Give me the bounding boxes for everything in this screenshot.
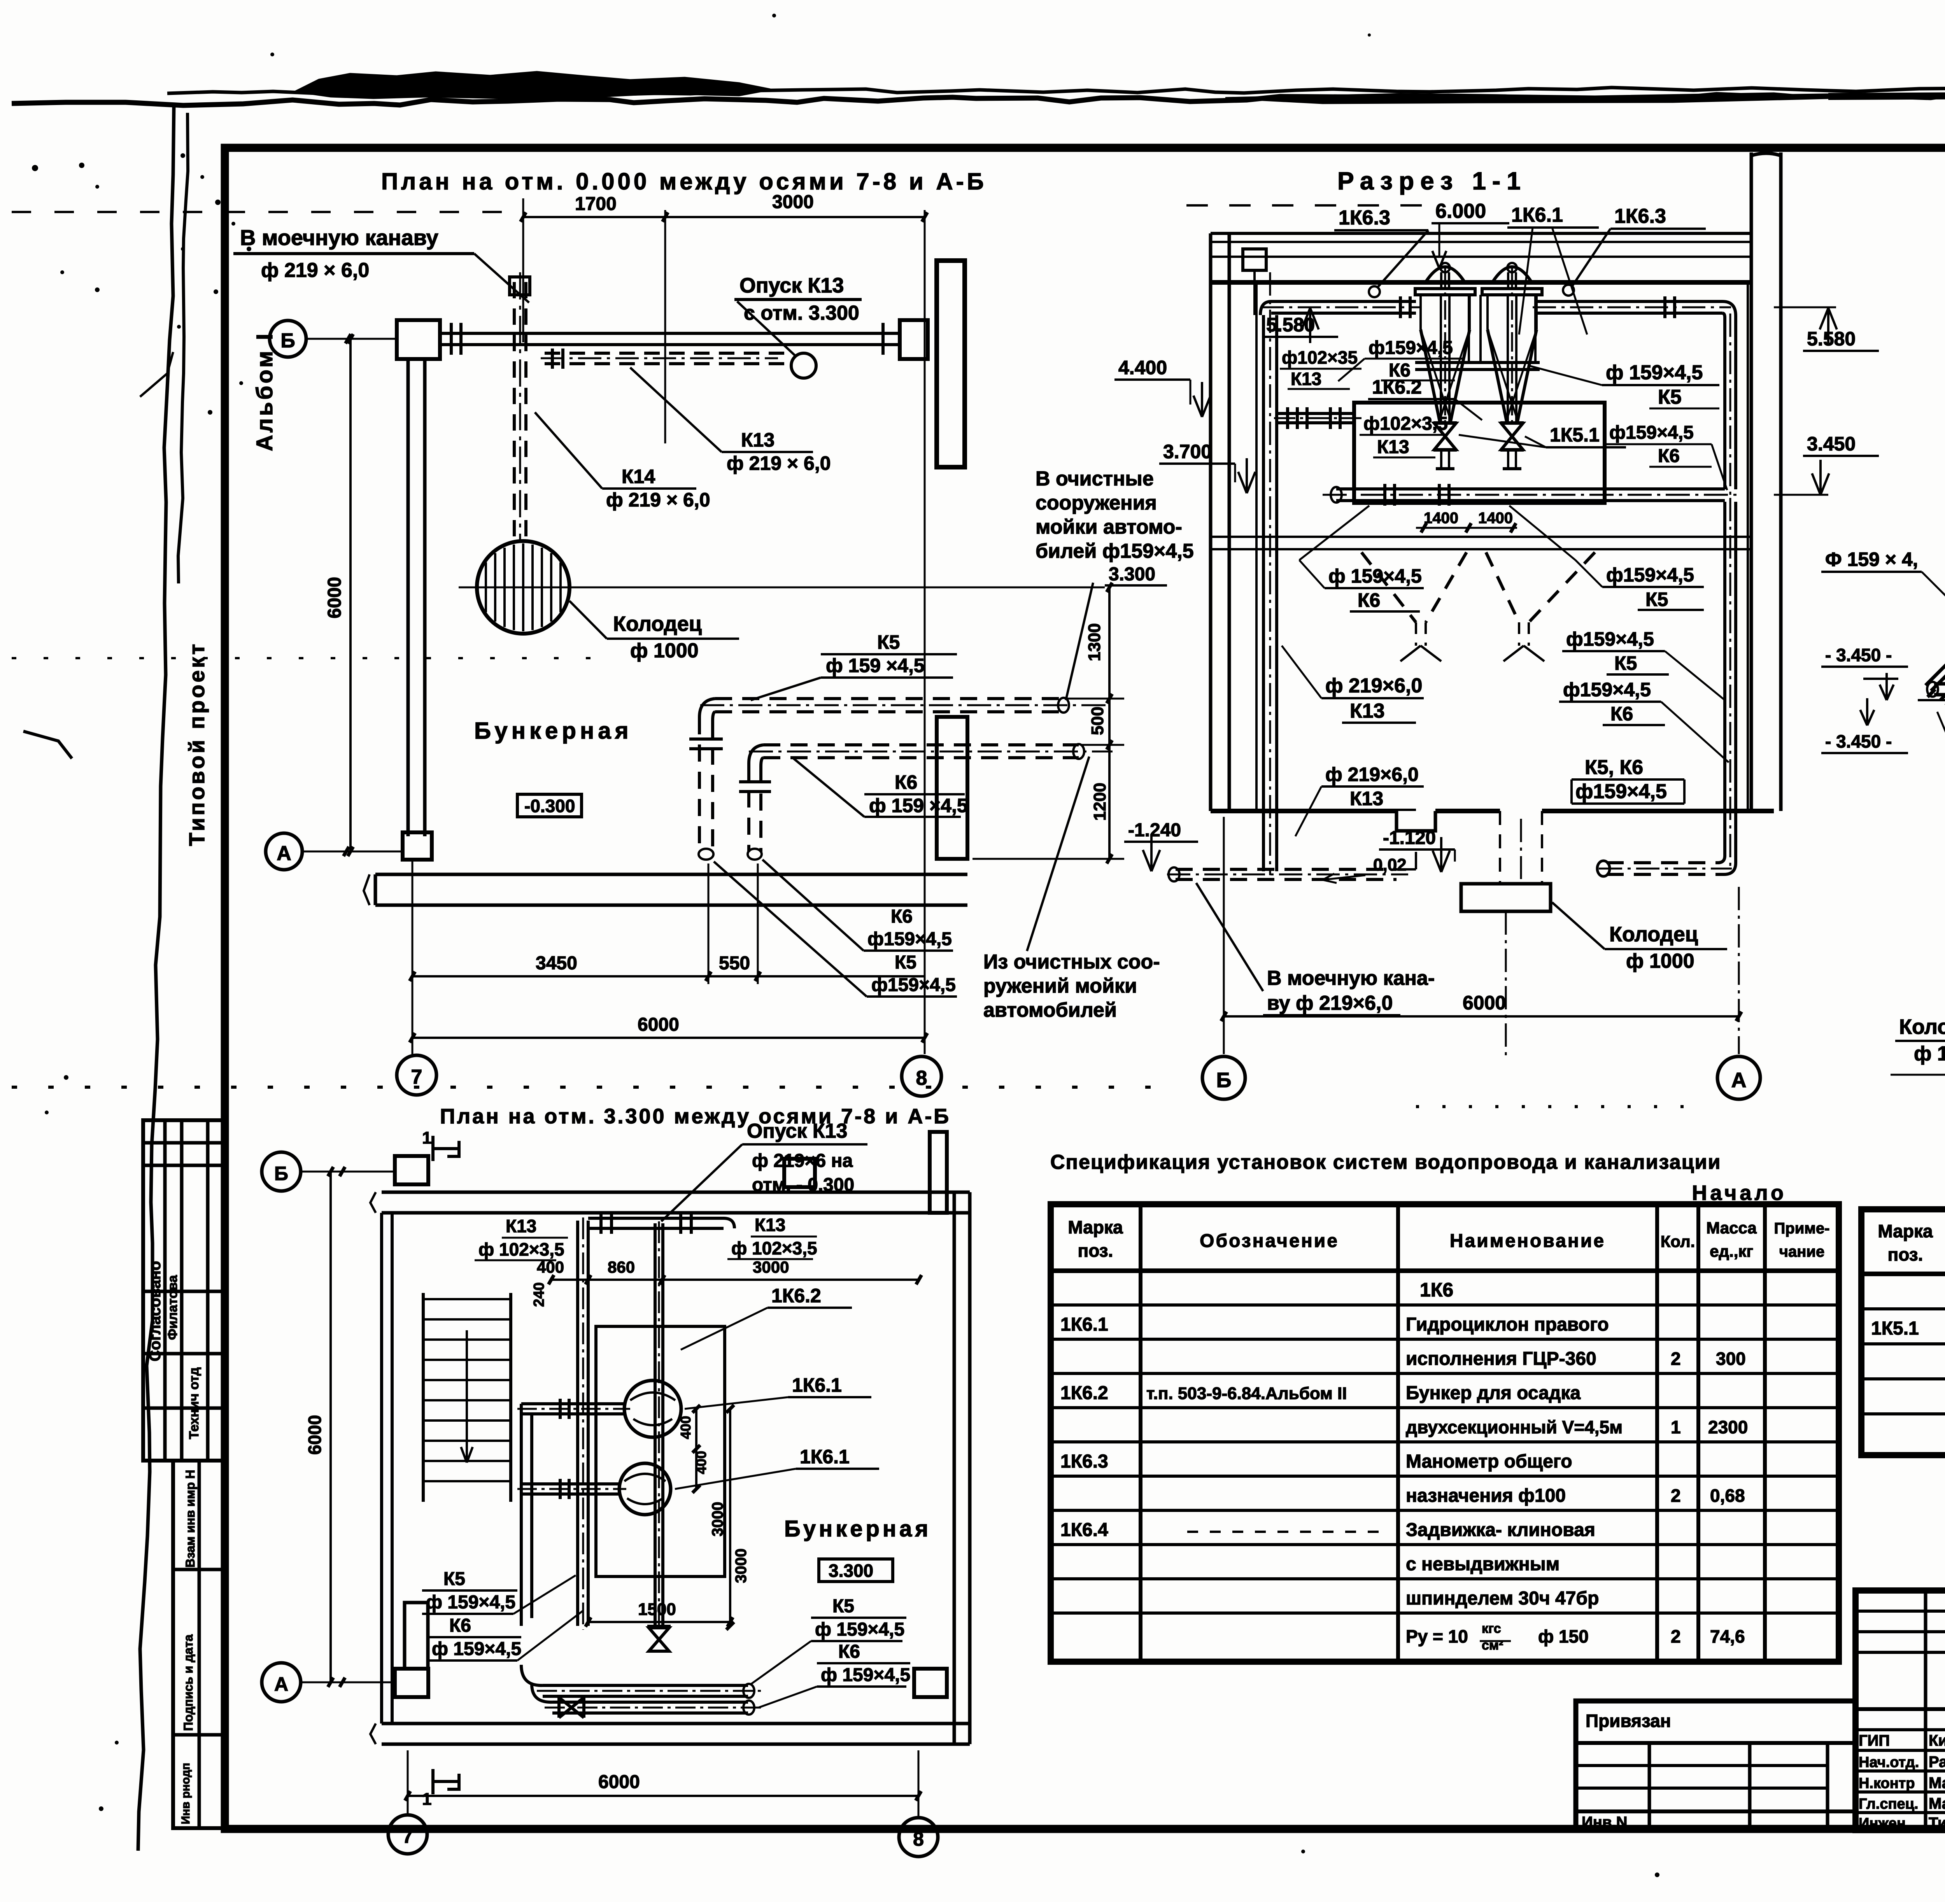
svg-text:3.300: 3.300 — [829, 1561, 873, 1581]
svg-text:К6: К6 — [891, 906, 913, 927]
svg-text:К13: К13 — [1350, 700, 1385, 722]
svg-text:1500: 1500 — [638, 1600, 676, 1619]
main diagonal pipes K6 K5 — [1918, 456, 1945, 706]
svg-text:Ф 159 × 4,: Ф 159 × 4, — [1825, 548, 1918, 570]
scan speckles top-left corner — [79, 163, 84, 168]
svg-text:ф 219×6,0: ф 219×6,0 — [1325, 674, 1422, 697]
section right wall tall — [1748, 152, 1781, 811]
dims 400 400 vertical plan33 — [678, 1405, 709, 1493]
svg-text:Б: Б — [274, 1163, 288, 1184]
svg-text:К13: К13 — [506, 1216, 536, 1236]
bottom wall plan33 — [370, 1724, 970, 1744]
svg-text:ф 150: ф 150 — [1538, 1626, 1589, 1647]
label K14 f219 — [535, 412, 710, 511]
svg-text:ф159×4,5: ф159×4,5 — [1575, 780, 1667, 803]
specification table 2 grid — [1861, 1209, 1945, 1455]
wall below left column — [408, 359, 425, 836]
svg-text:поз.: поз. — [1888, 1244, 1923, 1265]
svg-text:К5: К5 — [1658, 386, 1682, 408]
svg-text:1К5.1: 1К5.1 — [1550, 424, 1600, 446]
svg-text:ф 159×4,5: ф 159×4,5 — [815, 1619, 904, 1640]
table 1 header texts — [1068, 1217, 1829, 1261]
svg-text:Ру = 10: Ру = 10 — [1406, 1626, 1468, 1647]
svg-text:В моечную кана-: В моечную кана- — [1267, 967, 1435, 990]
svg-text:6000: 6000 — [638, 1014, 679, 1035]
svg-text:ф 219 × 6,0: ф 219 × 6,0 — [727, 452, 831, 474]
pipe on axis B — [440, 323, 900, 355]
svg-text:К5: К5 — [1645, 589, 1668, 610]
table 2 header texts — [1878, 1221, 1945, 1265]
svg-text:К13: К13 — [1377, 437, 1409, 457]
dots row under section — [1416, 1105, 1688, 1108]
svg-text:исполнения ГЦР-360: исполнения ГЦР-360 — [1406, 1349, 1596, 1369]
svg-text:ф159×4,5: ф159×4,5 — [1563, 679, 1651, 701]
drawing frame border — [225, 148, 1945, 1829]
svg-text:Колодец: Колодец — [1899, 1015, 1945, 1039]
text iz ochistnyh plan0 — [983, 951, 1160, 1021]
left margin diagonal scratch — [23, 731, 72, 758]
svg-text:К5: К5 — [1614, 652, 1637, 674]
label v moechnuyu kanavu — [233, 225, 529, 303]
svg-text:В очистные: В очистные — [1036, 468, 1154, 490]
axis circle B plan33 — [262, 1152, 395, 1191]
svg-text:ф 159 ×4,5: ф 159 ×4,5 — [869, 795, 968, 816]
svg-text:- 3.450 -: - 3.450 - — [1825, 731, 1892, 751]
dimension line 1700 3000 — [520, 192, 927, 1054]
label kolodets f1000 plan — [569, 601, 739, 662]
right vertical pipe drop K5K6 — [1597, 498, 1736, 876]
svg-text:Колодец: Колодец — [1609, 923, 1698, 946]
vertical dim 1300 500 1200 — [972, 583, 1124, 864]
svg-text:К5: К5 — [443, 1569, 465, 1589]
svg-text:ву ф 219×6,0: ву ф 219×6,0 — [1267, 992, 1393, 1014]
title block outer — [1856, 1590, 1945, 1830]
axis circle A section — [1717, 1056, 1760, 1099]
svg-text:1К6.3: 1К6.3 — [1614, 205, 1666, 228]
left bottom stamp table upper block — [143, 1120, 226, 1461]
svg-text:ф 219×6 на: ф 219×6 на — [752, 1151, 853, 1171]
axis A column foot — [403, 832, 432, 860]
svg-text:6000: 6000 — [1463, 992, 1506, 1014]
svg-text:Опуск К13: Опуск К13 — [747, 1120, 847, 1142]
svg-text:2: 2 — [1671, 1626, 1681, 1647]
svg-text:К6: К6 — [895, 771, 917, 793]
K13 pipe stack left — [1243, 249, 1277, 875]
label f159 K6 upper — [1338, 338, 1463, 381]
svg-text:с невыдвижным: с невыдвижным — [1406, 1554, 1560, 1575]
svg-text:ф 219 × 6,0: ф 219 × 6,0 — [606, 489, 710, 511]
svg-text:К5: К5 — [895, 952, 916, 973]
svg-text:300: 300 — [1716, 1349, 1746, 1369]
level -1.240 mark — [1124, 820, 1198, 871]
left pier stub plan33 — [405, 1603, 428, 1669]
column A right wall plan33 — [914, 1669, 947, 1697]
level 5.580 left — [1262, 308, 1338, 343]
svg-text:1К6.1: 1К6.1 — [1511, 204, 1563, 226]
svg-text:ГИП: ГИП — [1859, 1732, 1890, 1749]
svg-text:Марионков: Марионков — [1929, 1774, 1945, 1792]
label K13 f102 right plan33 — [727, 1215, 817, 1259]
label K13 f102 left plan33 — [475, 1216, 568, 1260]
valve on riser plan33 — [647, 1626, 671, 1651]
pipe K6 plan dashed — [739, 744, 1113, 860]
stamp staff names — [1859, 1732, 1945, 1832]
section mark 1 bottom — [422, 1769, 459, 1809]
label 1K6.3 right with leader — [1563, 205, 1706, 296]
label f159 K5 low — [1509, 506, 1704, 610]
svg-text:ф 219×6,0: ф 219×6,0 — [1325, 764, 1419, 785]
label f159 K6 right — [1605, 422, 1727, 490]
svg-text:Опуск К13: Опуск К13 — [739, 274, 844, 297]
svg-text:К13: К13 — [755, 1215, 785, 1235]
svg-text:3000: 3000 — [753, 1258, 789, 1276]
dim 3000 vertical plan33 — [709, 1405, 750, 1630]
bunker outline plan33 — [596, 1326, 725, 1576]
svg-text:поз.: поз. — [1078, 1240, 1113, 1261]
bottom wall plan0 — [364, 874, 967, 905]
svg-text:ф 159×4,5: ф 159×4,5 — [426, 1592, 515, 1613]
svg-text:0,68: 0,68 — [1710, 1485, 1745, 1506]
svg-text:1К6.2: 1К6.2 — [1060, 1383, 1108, 1403]
svg-text:Наименование: Наименование — [1450, 1231, 1605, 1251]
svg-text:Задвижка- клиновая: Задвижка- клиновая — [1406, 1520, 1595, 1540]
svg-text:ф159×4,5: ф159×4,5 — [1606, 564, 1694, 586]
level 4.400 mark — [1114, 357, 1211, 417]
svg-text:Технич отд: Технич отд — [187, 1367, 202, 1439]
top pipe opusk K13 plan33 — [588, 1213, 734, 1234]
axis circle 7 plan0 — [397, 1055, 436, 1095]
horizontal pipe bottom axon — [1927, 678, 1945, 700]
vert dim 6000 plan33 — [305, 1167, 333, 1687]
label f102x35 K13 upper left — [1280, 347, 1361, 389]
svg-text:В моечную канаву: В моечную канаву — [240, 225, 438, 250]
axis circle B section — [1202, 1056, 1245, 1099]
feed pipes to cyclones plan33 — [517, 1399, 630, 1626]
svg-text:Масса: Масса — [1706, 1219, 1757, 1237]
svg-text:Инв рнодп: Инв рнодп — [179, 1763, 192, 1824]
labels K5 K6 right plan33 — [751, 1596, 910, 1708]
svg-text:К6: К6 — [838, 1641, 860, 1662]
svg-text:3.300: 3.300 — [1109, 564, 1155, 585]
cyclone B section — [1482, 263, 1542, 426]
svg-text:Б: Б — [1216, 1068, 1232, 1092]
svg-text:ф 159×4,5: ф 159×4,5 — [1606, 361, 1703, 384]
label 6.000 section — [1432, 200, 1509, 268]
label 1K6.4 axon lower — [1937, 712, 1945, 737]
svg-text:ед.,кг: ед.,кг — [1710, 1242, 1753, 1260]
well below section — [1461, 811, 1551, 1058]
level 5.580 right — [1774, 307, 1879, 351]
svg-text:ф159×4,5: ф159×4,5 — [867, 929, 952, 949]
dashed axis extension line top-left — [12, 211, 521, 213]
svg-text:7: 7 — [402, 1825, 413, 1847]
svg-text:ф159×4,5: ф159×4,5 — [1369, 338, 1453, 358]
left wall plan33 — [382, 1213, 392, 1724]
svg-text:Кирсанов: Кирсанов — [1929, 1732, 1945, 1749]
svg-text:6000: 6000 — [598, 1772, 640, 1792]
svg-text:1400: 1400 — [1424, 510, 1458, 527]
torn paper left edge — [138, 106, 174, 1851]
svg-text:4.400: 4.400 — [1118, 357, 1167, 378]
label K5 f159 plan upper — [751, 631, 957, 700]
label f159x4 margin (axon K5K6 feed) — [1821, 548, 1945, 630]
svg-text:3450: 3450 — [536, 953, 577, 974]
svg-text:1К6.3: 1К6.3 — [1060, 1451, 1108, 1472]
svg-text:Инжен.: Инжен. — [1859, 1815, 1910, 1832]
svg-text:1: 1 — [1671, 1417, 1681, 1437]
svg-text:2300: 2300 — [1708, 1417, 1748, 1437]
svg-text:Бункерная: Бункерная — [474, 718, 633, 744]
svg-text:Ратников: Ратников — [1929, 1753, 1945, 1771]
svg-text:Б: Б — [280, 329, 295, 352]
svg-text:1К6: 1К6 — [1420, 1279, 1453, 1301]
dims 1400 1400 under pipe — [1416, 510, 1517, 532]
svg-text:3000: 3000 — [709, 1502, 726, 1536]
svg-text:К6: К6 — [449, 1615, 471, 1636]
svg-text:400: 400 — [693, 1451, 709, 1474]
right wall bar top plan33 — [930, 1132, 947, 1213]
cyclone A section — [1415, 263, 1475, 426]
specification table 1 grid — [1051, 1204, 1839, 1662]
svg-text:А: А — [274, 1673, 288, 1695]
axis circle 8 plan33 — [899, 1818, 938, 1857]
svg-text:ф 159×4,5: ф 159×4,5 — [1328, 565, 1422, 587]
dashed line top row over section — [1186, 204, 1432, 207]
svg-text:ф159×4,5: ф159×4,5 — [1609, 422, 1694, 443]
svg-text:ф 1000: ф 1000 — [630, 639, 699, 662]
svg-text:ф 1000: ф 1000 — [1626, 950, 1694, 972]
torn paper left edge second — [178, 113, 188, 583]
left bottom stamp table lower block — [173, 1461, 226, 1828]
svg-text:К13: К13 — [1350, 788, 1383, 809]
svg-text:3.450: 3.450 — [1807, 433, 1856, 455]
valve on bottom pipe plan33 — [559, 1697, 584, 1718]
pipe K6 at 5.580 left run — [1260, 296, 1421, 318]
svg-text:1К6.2: 1К6.2 — [1372, 376, 1422, 398]
svg-text:ф159×4,5: ф159×4,5 — [1566, 628, 1654, 650]
stamp table left part — [1856, 1590, 1945, 1830]
svg-text:Марка: Марка — [1878, 1221, 1933, 1241]
level 3.450 right — [1774, 433, 1879, 495]
svg-text:ф 159 ×4,5: ф 159 ×4,5 — [826, 655, 925, 676]
svg-text:1300: 1300 — [1085, 623, 1104, 661]
svg-text:74,6: 74,6 — [1710, 1626, 1745, 1647]
svg-text:мойки автомо-: мойки автомо- — [1036, 516, 1182, 538]
labels K6 K5 at pipe ends bottom — [714, 860, 957, 997]
svg-text:Взам инв имр Н: Взам инв имр Н — [183, 1470, 197, 1568]
svg-text:400: 400 — [537, 1258, 564, 1276]
label opusk K13 — [734, 274, 862, 378]
svg-text:Гидроциклон правого: Гидроциклон правого — [1406, 1314, 1609, 1335]
svg-text:Типовой проект: Типовой проект — [184, 642, 209, 846]
svg-text:Разрез 1-1: Разрез 1-1 — [1337, 167, 1527, 195]
black smudge streak top-middle — [1225, 93, 1828, 103]
pipe K5 plan dashed — [689, 698, 1109, 860]
svg-text:Бункер для осадка: Бункер для осадка — [1406, 1383, 1581, 1403]
K13 horizontal f102 connection — [1274, 407, 1361, 429]
svg-text:- 3.450 -: - 3.450 - — [1825, 645, 1892, 665]
svg-text:1К6.4: 1К6.4 — [1060, 1520, 1108, 1540]
bottom pipes plan33 — [521, 1665, 762, 1715]
label opusk K13 plan33 — [661, 1120, 867, 1221]
svg-text:чание: чание — [1779, 1243, 1824, 1260]
svg-text:6.000: 6.000 — [1435, 200, 1486, 222]
svg-text:А: А — [1731, 1068, 1747, 1092]
svg-text:Марка: Марка — [1068, 1217, 1123, 1237]
table 1 body texts — [1060, 1279, 1748, 1653]
svg-text:К13: К13 — [741, 429, 774, 451]
svg-text:1К6.1: 1К6.1 — [1060, 1314, 1108, 1335]
svg-text:3000: 3000 — [772, 192, 814, 212]
svg-text:Манометр общего: Манометр общего — [1406, 1451, 1572, 1472]
svg-text:К6: К6 — [1610, 703, 1633, 725]
valve 1K6.4 under cyclone A — [1433, 422, 1457, 469]
svg-text:-0.300: -0.300 — [524, 796, 575, 816]
svg-text:ф 159×4,5: ф 159×4,5 — [821, 1665, 910, 1685]
svg-text:Н.контр: Н.контр — [1859, 1775, 1915, 1792]
bunker rect section — [1354, 403, 1605, 503]
dims 400 860 3000 plan33 — [531, 1258, 922, 1307]
right pier plan0 — [937, 717, 967, 859]
vertical dim 6000 left — [324, 334, 353, 856]
black smudge blob top-left — [296, 72, 770, 98]
hydrocyclone circle 2 plan33 — [619, 1463, 671, 1515]
svg-text:Спецификация установок систем: Спецификация установок систем водопровод… — [1050, 1151, 1721, 1174]
vertical pipe K14 dashed — [510, 272, 530, 543]
axis B wall column left — [397, 320, 440, 359]
axis circle 8 plan0 — [902, 1056, 941, 1096]
axis circle B plan0 — [270, 321, 397, 357]
svg-text:8: 8 — [913, 1828, 924, 1850]
label f219 K13 bottom — [1295, 764, 1424, 836]
svg-text:ф 102×3,5: ф 102×3,5 — [731, 1238, 817, 1258]
privyazan table — [1576, 1701, 1856, 1831]
level 3.700 mark — [1159, 441, 1255, 493]
valve 1K6.4 under cyclone B — [1500, 422, 1524, 469]
svg-text:с отм. 3.300: с отм. 3.300 — [744, 302, 859, 324]
svg-text:План на отм. 3.300 между ос: План на отм. 3.300 между осями 7-8 и А-Б — [440, 1105, 951, 1128]
svg-text:3.700: 3.700 — [1163, 441, 1212, 462]
labels K5 K6 left plan33 — [422, 1569, 583, 1661]
svg-text:Тиблова: Тиблова — [1929, 1815, 1945, 1832]
svg-text:7: 7 — [411, 1066, 422, 1088]
bottom dim 6000 — [410, 1014, 927, 1042]
axis circle 7 plan33 — [388, 1815, 427, 1854]
label f159 K5 right upper — [1529, 361, 1719, 408]
svg-text:сооружения: сооружения — [1036, 492, 1157, 514]
svg-text:1: 1 — [422, 1128, 431, 1147]
bottom dim 6000 plan33 — [405, 1750, 921, 1817]
structural line under bunker — [1211, 537, 1751, 549]
svg-text:К14: К14 — [622, 466, 655, 487]
pipe K5 at 5.580 right run — [1533, 296, 1736, 495]
kolodets axon — [1891, 1015, 1945, 1075]
svg-text:2: 2 — [1671, 1485, 1681, 1506]
svg-text:ф 1000: ф 1000 — [1914, 1042, 1945, 1065]
svg-text:6000: 6000 — [324, 577, 345, 618]
svg-text:ружений мойки: ружений мойки — [983, 975, 1137, 997]
K13 dashed pipe near axis B — [541, 349, 790, 369]
svg-text:Колодец: Колодец — [613, 612, 702, 636]
svg-text:ф102×35: ф102×35 — [1282, 347, 1358, 368]
column B right plan33 — [784, 1159, 815, 1187]
svg-text:Гл.спец.: Гл.спец. — [1859, 1796, 1918, 1812]
svg-text:Нач.отд.: Нач.отд. — [1859, 1754, 1919, 1771]
svg-text:5.580: 5.580 — [1807, 328, 1856, 350]
svg-text:3000: 3000 — [732, 1548, 750, 1583]
label f219 K13 mid — [1282, 646, 1424, 723]
svg-text:К6: К6 — [1358, 589, 1380, 611]
top wall plan33 — [370, 1192, 970, 1213]
well kolodets circle — [459, 541, 1105, 634]
slope 0.02 section — [1323, 855, 1407, 883]
right wall plan33 — [954, 1192, 970, 1744]
svg-text:К13: К13 — [1291, 369, 1321, 389]
svg-text:-1.240: -1.240 — [1128, 820, 1181, 841]
svg-text:билей ф159×4,5: билей ф159×4,5 — [1036, 540, 1194, 562]
svg-text:назначения ф100: назначения ф100 — [1406, 1485, 1566, 1506]
svg-text:860: 860 — [608, 1258, 635, 1276]
dim 1500 plan33 — [585, 1600, 733, 1627]
level mark -0.300 box — [517, 794, 582, 817]
label 1K6.2 section — [1368, 376, 1482, 420]
svg-text:План на отм. 0.000 между ос: План на отм. 0.000 между осями 7-8 и А-Б — [381, 168, 987, 194]
label 1K6.2 plan33 — [681, 1285, 852, 1350]
svg-text:ф 219 × 6,0: ф 219 × 6,0 — [261, 259, 369, 282]
svg-text:8: 8 — [916, 1067, 927, 1090]
svg-text:1К6.2: 1К6.2 — [771, 1285, 821, 1307]
torn paper top edge line — [12, 92, 1945, 105]
dashed line across lower sheet — [12, 1086, 1151, 1089]
svg-text:0,02: 0,02 — [1373, 855, 1407, 874]
svg-text:К5, К6: К5, К6 — [1585, 756, 1643, 779]
level -1.120 mark section — [1379, 828, 1455, 872]
svg-text:Приме-: Приме- — [1774, 1220, 1830, 1237]
svg-text:ф159×4,5: ф159×4,5 — [871, 975, 956, 995]
torn paper top edge second line — [167, 86, 1945, 94]
dashed line mid-left — [12, 657, 595, 659]
label f102x3.5 K13 inside bunker — [1360, 413, 1448, 457]
mid horizontal pipe at 3.450 — [1323, 484, 1739, 506]
svg-text:6000: 6000 — [305, 1415, 325, 1455]
column A left plan33 — [395, 1669, 428, 1697]
bottom dims 3450 550 — [410, 862, 925, 1054]
svg-text:Бункерная: Бункерная — [784, 1516, 931, 1541]
level 3.450 axon left lower — [1821, 698, 1908, 753]
svg-text:1: 1 — [422, 1790, 431, 1809]
label K5 K6 f159 bottom — [1572, 756, 1684, 804]
svg-text:1К6.1: 1К6.1 — [792, 1374, 842, 1396]
svg-text:Подпись и дата: Подпись и дата — [181, 1634, 195, 1731]
svg-text:ф 159×4,5: ф 159×4,5 — [432, 1639, 521, 1659]
K13 riser pipes plan33 — [578, 1217, 663, 1630]
svg-text:Кол.: Кол. — [1661, 1232, 1695, 1251]
svg-text:-1.120: -1.120 — [1383, 828, 1436, 848]
svg-text:А: А — [277, 842, 291, 865]
svg-text:1200: 1200 — [1090, 783, 1109, 821]
svg-text:шпинделем 30ч 47бр: шпинделем 30ч 47бр — [1406, 1588, 1599, 1609]
label 1K6.3 left with leader — [1334, 207, 1428, 297]
svg-text:Согласовано: Согласовано — [147, 1261, 164, 1361]
dim 6000 section — [1221, 817, 1742, 1054]
svg-text:Филатова: Филатова — [165, 1275, 180, 1340]
label 1K5.1 section — [1459, 424, 1626, 447]
black smudge top-right thin — [1828, 93, 1945, 96]
svg-text:1400: 1400 — [1478, 510, 1513, 527]
section mark 1 top — [422, 1128, 459, 1161]
svg-text:автомобилей: автомобилей — [983, 999, 1117, 1021]
svg-text:1К6.1: 1К6.1 — [800, 1446, 850, 1468]
